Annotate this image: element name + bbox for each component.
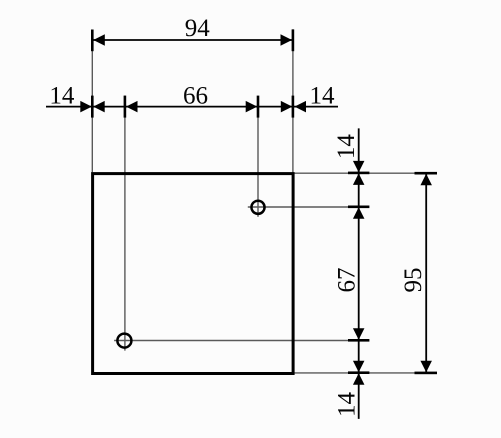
vertical dimension column x=426.2 (95): [425, 173, 427, 373]
arrow right-pointing tip at A: [80, 101, 92, 113]
dimension line 94 row (y=40): [92, 39, 293, 41]
extension line bottom edge right (y=372.9): [294, 372, 437, 374]
svg-text:14: 14: [310, 82, 336, 109]
extension line B (x=124.9, hole1 vertical centerline): [124, 96, 126, 351]
hole 2 (top-right): [251, 201, 264, 214]
hole2 horizontal centerline (y=207): [248, 206, 365, 208]
arrow right of 94 dim: [281, 34, 293, 46]
tick at row14 x=292.4: [292, 96, 295, 118]
arrow down tip at line4: [353, 361, 365, 373]
vertical dimension column x=358.7 (14/67/14): [358, 128, 360, 419]
tick at row14 x=258: [257, 96, 260, 118]
arrow up tip at line4 (bowtie): [353, 373, 365, 385]
hole 1 (bottom-left): [117, 334, 131, 348]
arrow up tip at 95 top: [420, 174, 432, 186]
arrow down tip at line1: [353, 161, 365, 173]
plate outline: [93, 174, 294, 374]
arrow down tip at 95 bottom: [420, 361, 432, 373]
dimension line 14/66/14 row (y=106.6): [46, 106, 338, 108]
arrow left-pointing tip at B: [126, 101, 138, 113]
arrow up tip at line1 (bowtie): [353, 173, 365, 185]
svg-text:66: 66: [183, 82, 208, 109]
tick at 95-col top: [415, 172, 438, 175]
tick at 94-row left: [91, 30, 94, 52]
svg-text:67: 67: [334, 268, 361, 293]
extension line C (x=258, hole2 vertical centerline): [257, 97, 259, 217]
arrow right-pointing tip at C: [246, 101, 258, 113]
svg-text:14: 14: [333, 134, 360, 160]
arrow left-pointing tip at A (bowtie): [93, 101, 105, 113]
svg-text:14: 14: [334, 392, 361, 418]
tick at row14 x=92.3: [91, 96, 94, 118]
extension line top edge right (y=173.2): [294, 172, 437, 174]
tick at row14 x=124.9: [124, 96, 127, 118]
tick at col x=358.7 y=206.8: [348, 206, 369, 209]
arrow left of 94 dim: [93, 34, 105, 46]
svg-text:14: 14: [49, 82, 75, 109]
extension line A (x=92.3, left edge, above plate): [91, 30, 93, 173]
arrow right-pointing tip at D: [281, 101, 293, 113]
tick at 94-row right: [292, 29, 295, 51]
extension line D (x=292.4, right edge, above plate): [292, 29, 294, 172]
svg-text:94: 94: [185, 15, 211, 42]
hole1 horizontal centerline (y=340.5): [114, 340, 364, 342]
tick at col x=358.7 y=372.7: [348, 371, 369, 374]
arrow up tip at line2: [353, 207, 365, 219]
tick at col x=358.7 y=172.9: [348, 172, 369, 175]
arrow left-pointing tip at D (bowtie): [295, 101, 307, 113]
tick at col x=358.7 y=340.3: [348, 339, 369, 342]
arrow down tip at line3: [353, 328, 365, 340]
tick at 95-col bottom: [415, 372, 438, 375]
svg-text:95: 95: [400, 268, 427, 293]
